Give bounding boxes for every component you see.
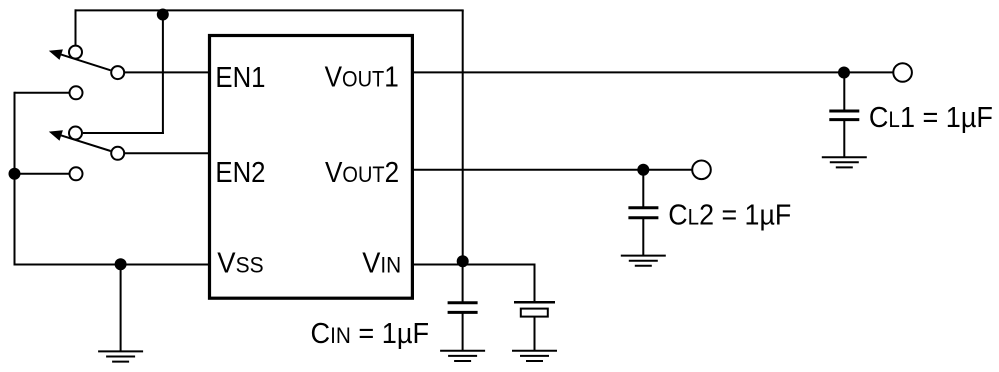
svg-text:EN1: EN1 [215,61,265,94]
switch S2 common contact [111,147,124,160]
ground symbol below CL2 [621,256,666,266]
wire VSS junction down to ground [120,265,122,353]
node junction dot VSS [115,258,127,270]
ground symbol below VSS [98,351,143,361]
ground symbol below battery [512,351,557,361]
switch S1 arrowhead [49,49,63,60]
wire VOUT1 output [412,71,893,73]
wire left vertical rail [14,92,16,266]
wire top horizontal net [75,9,464,11]
IC U1 body [210,36,413,299]
wire VOUT2 output [412,169,692,171]
node junction dot VOUT1 [838,67,850,79]
wire horizontal into switch S2 upper throw [83,132,164,134]
label CL1 value [869,101,993,133]
capacitor CL1 top lead [843,72,845,110]
switch S2 arrowhead [49,130,63,141]
capacitor CIN bottom lead [462,313,464,351]
switch S1 lower throw contact [70,86,83,99]
capacitor CL1 plates [829,111,859,120]
terminal VOUT1 open circle [893,63,912,82]
wire from top junction down toward switch S2 [162,10,164,134]
switch S1 upper throw contact [69,46,82,59]
wire EN2 from S2 common to IC [125,152,210,154]
capacitor CL1 bottom lead [843,121,845,158]
switch S1 lever [60,54,111,70]
svg-text:CIN = 1µF: CIN = 1µF [311,317,430,349]
capacitor CIN plates [448,303,478,313]
svg-text:EN2: EN2 [215,156,265,189]
pin label VSS [217,247,263,279]
battery B1 negative box plate [521,309,548,317]
node junction dot VIN [457,255,469,267]
wire from top net down to switch S1 upper throw [75,9,77,45]
pin label VOUT2 [325,156,399,188]
node junction dot VOUT2 [637,164,649,176]
capacitor CL2 top lead [642,170,644,207]
switch S2 upper throw contact [69,127,82,140]
wire VIN from IC to input branch [412,264,534,266]
capacitor CIN top lead [462,265,464,302]
pin label EN2 [215,156,265,189]
wire vertical from top net down to VIN [462,10,464,264]
wire S1 lower throw to left rail [15,92,70,94]
ground symbol below CIN [440,351,485,361]
pin label VOUT1 [325,60,399,92]
switch S2 lever [60,135,111,151]
wire input source branch down [534,264,536,302]
label CL2 value [668,199,791,231]
wire left rail to S2 lower throw [15,173,70,175]
battery B1 bottom lead [534,317,536,352]
wire VSS from left rail to IC [14,264,210,266]
terminal VOUT2 open circle [692,161,711,180]
label CIN value [311,317,430,349]
node junction dot left rail [9,168,21,180]
switch S1 common contact [111,66,124,79]
svg-text:CL2 = 1µF: CL2 = 1µF [668,199,791,231]
battery B1 top plate [514,301,555,304]
ground symbol below CL1 [822,157,867,167]
pin label EN1 [215,61,265,94]
svg-text:CL1 = 1µF: CL1 = 1µF [869,101,993,133]
capacitor CL2 plates [628,208,658,218]
capacitor CL2 bottom lead [642,219,644,256]
node junction dot top net [157,9,169,21]
wire EN1 from S1 common to IC [125,71,210,73]
pin label VIN [362,247,401,279]
switch S2 lower throw contact [70,167,83,180]
